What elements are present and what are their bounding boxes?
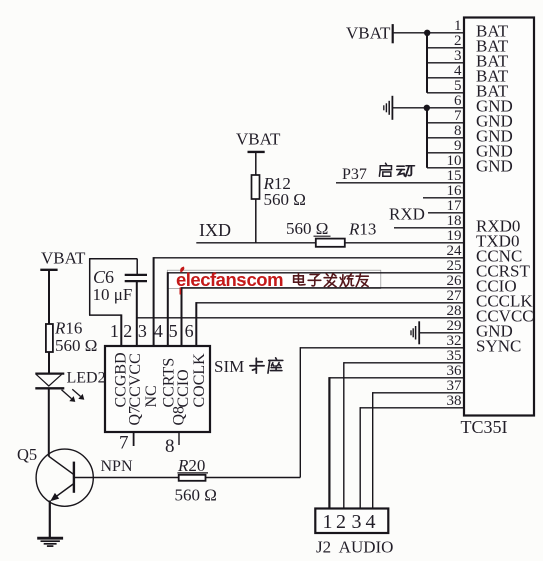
wire LED2 to Q5 collector	[48, 388, 50, 456]
wire pin 24 drop to SIM pin 3	[153, 257, 155, 346]
SIM pad label NC	[143, 385, 160, 407]
svg-text:4: 4	[454, 63, 462, 79]
svg-text:7: 7	[454, 108, 462, 124]
svg-text:29: 29	[447, 318, 462, 334]
SIM pin number 5	[169, 321, 178, 341]
svg-text:2: 2	[454, 33, 462, 49]
LED2 diode symbol	[35, 374, 64, 389]
capacitor C6 value 10 uF	[93, 285, 133, 304]
svg-text:SIM: SIM	[214, 357, 244, 376]
wire pin 28	[137, 317, 464, 319]
pin label BAT (pin 3)	[476, 52, 509, 71]
resistor R16 body	[46, 324, 53, 352]
wire pin 19	[196, 242, 464, 244]
pin number 7	[454, 108, 462, 124]
pin number 37	[447, 378, 463, 394]
svg-text:com: com	[247, 269, 284, 290]
resistor R20 value 560 ohm	[175, 486, 217, 505]
pin label CCVCC (pin 28)	[476, 307, 534, 326]
wire VBAT to R16	[48, 271, 50, 325]
connector J2 pin number 4	[366, 511, 376, 533]
wire pin 32	[300, 347, 464, 349]
resistor R12 body	[252, 175, 260, 199]
pin number 25	[447, 258, 462, 274]
SIM pin number 6	[185, 321, 194, 341]
svg-text:6: 6	[185, 321, 194, 341]
SIM pad label Q7	[127, 406, 144, 426]
pin label SYNC (pin 32)	[476, 337, 521, 356]
wire pin 4	[427, 77, 464, 79]
pin number 9	[454, 138, 462, 154]
pin number 27	[447, 288, 463, 304]
wire pin 26 drop to SIM pin 5	[181, 287, 183, 346]
svg-text:4: 4	[154, 321, 163, 341]
wire Q5 emitter to ground	[49, 501, 51, 539]
net label RXD on pin 17	[389, 205, 425, 224]
wire pin 35 drop to J2 pin 2	[343, 362, 345, 509]
pin number 36	[447, 363, 463, 379]
wire C6 top net horizontal	[90, 258, 138, 260]
resistor R13 body	[316, 239, 345, 247]
pin number 19	[447, 228, 462, 244]
connector J2 pin number 2	[336, 511, 346, 533]
wire pin 18	[394, 227, 464, 229]
LED2 designator	[67, 369, 106, 386]
pin label GND (pin 9)	[476, 142, 513, 161]
transistor Q5 base bar	[73, 462, 75, 493]
svg-text:4: 4	[366, 511, 376, 533]
wire pin 9	[427, 152, 464, 154]
wire R16 to LED2	[48, 352, 50, 374]
bus pins 1-5	[426, 32, 428, 93]
power rail VBAT (middle, R12 pullup)	[236, 129, 281, 152]
svg-text:10 μF: 10 μF	[93, 285, 133, 304]
connector J2 pin number 3	[352, 511, 362, 533]
wire pin 38	[360, 407, 464, 409]
net label IXD on pin 19	[199, 220, 231, 240]
wire pin 29	[419, 332, 464, 334]
wire pin 5	[427, 92, 464, 94]
wire pin 10	[427, 167, 464, 169]
svg-text:2: 2	[123, 321, 132, 341]
svg-text:16: 16	[447, 183, 463, 199]
SIM holder label SIM 卡座	[214, 357, 283, 376]
wire pin 27 drop to SIM pin 6	[195, 302, 197, 346]
svg-text:27: 27	[447, 288, 463, 304]
svg-text:5: 5	[169, 321, 178, 341]
resistor R13 value 560 ohm label	[286, 219, 331, 238]
svg-text:560 Ω: 560 Ω	[286, 219, 328, 238]
resistor R20 designator	[177, 456, 208, 475]
svg-text:J2 AUDIO: J2 AUDIO	[316, 538, 393, 557]
pin label BAT (pin 5)	[476, 82, 509, 101]
transistor Q5 emitter stroke with arrow	[50, 484, 74, 502]
svg-text:2: 2	[336, 511, 346, 533]
svg-text:36: 36	[447, 363, 463, 379]
pin label TXD0 (pin 19)	[476, 232, 519, 251]
SIM pin 7 stub	[133, 432, 135, 446]
svg-text:R20: R20	[177, 456, 205, 475]
svg-text:560 Ω: 560 Ω	[175, 486, 217, 505]
svg-text:6: 6	[454, 93, 462, 109]
svg-text:Q8: Q8	[171, 406, 188, 426]
wire pin 25 drop to SIM pin 4	[167, 272, 169, 346]
pin number 15	[447, 168, 462, 184]
wire pin 7	[427, 122, 464, 124]
wire pin 6	[392, 107, 464, 109]
pin number 29	[447, 318, 462, 334]
wire pin 38 drop to J2 pin 3	[359, 407, 361, 509]
pin label CCCLK (pin 27)	[476, 292, 533, 311]
power rail VBAT (top, pins 1-5)	[346, 23, 393, 43]
wire C6 net left vertical	[89, 258, 91, 315]
svg-text:VBAT: VBAT	[236, 129, 281, 148]
pin number 5	[454, 78, 462, 94]
svg-text:3: 3	[352, 511, 362, 533]
junction pin 6 bus	[424, 105, 430, 111]
capacitor C6 designator	[93, 267, 114, 287]
SIM pin number 4	[154, 321, 163, 341]
wire VBAT to R12	[255, 153, 257, 176]
wire pin 32 drop to R20 base wire	[299, 347, 301, 477]
wire pin 1	[394, 32, 464, 34]
svg-text:1: 1	[323, 511, 333, 533]
SIM pad label CCVCC	[127, 353, 144, 407]
svg-text:RXD: RXD	[389, 205, 425, 224]
svg-text:1: 1	[110, 321, 119, 341]
svg-text:38: 38	[447, 393, 462, 409]
svg-text:26: 26	[447, 273, 463, 289]
SIM card holder body	[105, 346, 210, 432]
capacitor C6 bottom lead to SIM pin 2	[136, 282, 138, 346]
resistor R20 body	[179, 475, 206, 481]
watermark elecfans.com logo	[176, 267, 283, 295]
svg-text:LED2: LED2	[67, 369, 106, 386]
wire pin 36 drop to J2 pin 1	[328, 377, 330, 509]
ground symbol (Q5 emitter)	[37, 538, 63, 546]
svg-text:10: 10	[447, 153, 462, 169]
SIM pin number 1	[110, 321, 119, 341]
svg-text:R13: R13	[348, 219, 376, 238]
pin label GND (pin 6)	[476, 97, 513, 116]
svg-text:19: 19	[447, 228, 462, 244]
svg-text:9: 9	[454, 138, 462, 154]
ground symbol (pin 6)	[384, 96, 393, 120]
pin number 18	[447, 213, 462, 229]
svg-text:3: 3	[138, 321, 147, 341]
resistor R16 value 560 ohm	[55, 336, 97, 355]
wire pin 15	[336, 182, 464, 184]
svg-text:SYNC: SYNC	[476, 337, 521, 356]
pin number 16	[447, 183, 463, 199]
ground symbol (pin 29)	[411, 321, 419, 344]
SIM pin 8 stub	[178, 432, 180, 445]
pin label CCNC (pin 24)	[476, 247, 522, 266]
pin number 35	[447, 348, 462, 364]
svg-text:35: 35	[447, 348, 462, 364]
wire pin 37	[373, 392, 464, 394]
wire pin 37 drop to J2 pin 4	[372, 392, 374, 509]
pin number 32	[447, 333, 462, 349]
resistor R12 designator	[263, 174, 291, 193]
transistor Q5 type label NPN	[101, 458, 133, 475]
transistor Q5 body circle	[36, 449, 93, 506]
transistor Q5 collector stroke	[49, 456, 74, 474]
watermark chinese 电子发烧友	[294, 273, 369, 286]
pin label BAT (pin 4)	[476, 67, 509, 86]
svg-text:COCLK: COCLK	[191, 353, 208, 408]
resistor R13 designator	[348, 219, 376, 238]
pin label BAT (pin 2)	[476, 37, 509, 56]
svg-text:C6: C6	[93, 267, 114, 287]
connector J2 AUDIO body	[315, 509, 388, 534]
svg-text:CCVCC: CCVCC	[127, 353, 144, 407]
wire pin 3	[427, 62, 464, 64]
svg-text:NPN: NPN	[101, 458, 133, 475]
pin label CCRST (pin 25)	[476, 262, 530, 281]
wire pin 24	[154, 257, 464, 259]
SIM pad label Q8	[171, 406, 188, 426]
wire pin 17	[428, 212, 464, 214]
svg-text:15: 15	[447, 168, 462, 184]
svg-text:560 Ω: 560 Ω	[264, 190, 306, 209]
pin label GND (pin 29)	[476, 322, 513, 341]
pin number 28	[447, 303, 462, 319]
wire pin 25	[168, 272, 464, 274]
junction pin 1 bus	[424, 30, 430, 36]
svg-text:560 Ω: 560 Ω	[55, 336, 97, 355]
transistor Q5 designator	[17, 445, 37, 464]
svg-text:IXD: IXD	[199, 220, 231, 240]
svg-text:NC: NC	[143, 385, 160, 407]
SIM pad label CCIO	[175, 369, 192, 407]
svg-text:24: 24	[447, 243, 463, 259]
SIM pin 8 number	[165, 436, 175, 457]
wire pin 27	[196, 302, 464, 304]
svg-text:18: 18	[447, 213, 462, 229]
SIM pin number 3	[138, 321, 147, 341]
pin number 2	[454, 33, 462, 49]
wire pin 2	[427, 47, 464, 49]
svg-text:1: 1	[454, 18, 462, 34]
wire C6 net bottom horizontal	[89, 314, 121, 316]
pin label BAT (pin 1)	[476, 22, 509, 41]
watermark background box	[167, 270, 380, 288]
svg-text:elecfans: elecfans	[176, 269, 246, 290]
pin number 38	[447, 393, 462, 409]
pin number 26	[447, 273, 463, 289]
pin number 10	[447, 153, 462, 169]
net label chinese 启动 on pin 15	[379, 163, 414, 176]
wire pin 36	[329, 377, 464, 379]
wire Q5 base to SYNC riser	[75, 477, 300, 479]
svg-text:Q7: Q7	[127, 406, 144, 426]
capacitor C6 top lead	[136, 259, 138, 274]
net label P37 (start) on pin 15	[342, 166, 367, 183]
IC U1 TC35I body	[464, 18, 534, 416]
pin number 6	[454, 93, 462, 109]
pin label GND (pin 7)	[476, 112, 513, 131]
resistor R16 designator	[54, 319, 82, 338]
wire pin 35	[344, 362, 464, 364]
capacitor C6 plates	[125, 275, 147, 281]
svg-text:8: 8	[165, 436, 175, 457]
pin number 8	[454, 123, 462, 139]
pin number 4	[454, 63, 462, 79]
SIM pad label CCRTS	[160, 358, 177, 408]
connector J2 name label	[316, 538, 393, 557]
power rail VBAT (left, LED branch)	[40, 249, 86, 270]
wire pin 26	[182, 287, 465, 289]
SIM pin number 2	[123, 321, 132, 341]
svg-text:28: 28	[447, 303, 462, 319]
svg-text:17: 17	[447, 198, 463, 214]
svg-text:TC35I: TC35I	[461, 417, 508, 437]
wire drop to SIM pin 1	[120, 314, 122, 346]
bus pins 6-10	[426, 107, 428, 168]
wire pin 8	[427, 137, 464, 139]
svg-text:37: 37	[447, 378, 463, 394]
svg-text:3: 3	[454, 48, 462, 64]
LED2 light arrows	[62, 389, 85, 402]
pin number 24	[447, 243, 463, 259]
pin number 3	[454, 48, 462, 64]
pin number 17	[447, 198, 463, 214]
connector J2 pin number 1	[323, 511, 333, 533]
svg-text:GND: GND	[476, 157, 513, 176]
svg-text:CCIO: CCIO	[175, 369, 192, 407]
wire R12 to pin 19 net	[255, 199, 257, 243]
pin label GND (pin 10)	[476, 157, 513, 176]
SIM pin 7 number	[119, 432, 129, 453]
resistor R12 value 560 ohm	[264, 190, 306, 209]
pin label RXD0 (pin 18)	[476, 217, 520, 236]
SIM pad label CCGBD	[112, 352, 129, 407]
pin label GND (pin 8)	[476, 127, 513, 146]
svg-text:32: 32	[447, 333, 462, 349]
IC U1 name label TC35I	[461, 417, 508, 437]
svg-text:Q5: Q5	[17, 445, 37, 464]
pin number 1	[454, 18, 462, 34]
svg-text:VBAT: VBAT	[346, 23, 391, 42]
svg-text:P37: P37	[342, 166, 367, 183]
svg-text:8: 8	[454, 123, 462, 139]
wire pin 16	[423, 197, 464, 199]
svg-text:R16: R16	[54, 319, 82, 338]
svg-text:25: 25	[447, 258, 462, 274]
SIM pad label COCLK	[191, 353, 208, 408]
svg-text:VBAT: VBAT	[41, 249, 86, 268]
svg-text:5: 5	[454, 78, 462, 94]
svg-text:7: 7	[119, 432, 129, 453]
pin label CCIO (pin 26)	[476, 277, 517, 296]
